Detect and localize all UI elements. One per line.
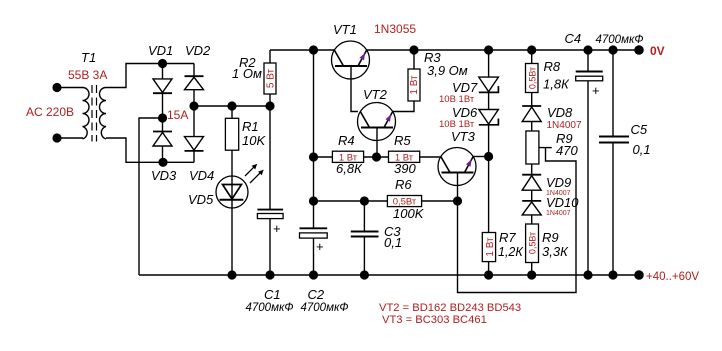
wire: C4 to bottom rail (587, 81, 589, 275)
node: R7 bottom (484, 270, 493, 279)
wire: R9a to VD9 (531, 164, 533, 175)
wire: 15A node to +rail (139, 118, 163, 275)
transformer T1 primary winding (83, 88, 90, 140)
resistor R3 (408, 69, 420, 101)
svg-text:+: + (273, 221, 281, 236)
wire: mid-right node to VD4 (193, 106, 195, 137)
svg-text:+: + (592, 83, 600, 98)
wire: VT3 emitter to zener node (473, 156, 488, 158)
transformer T1 secondary winding (100, 88, 106, 140)
wire: VT2 base (376, 128, 378, 158)
capacitor C3 plate1 (351, 231, 379, 233)
svg-text:15А: 15А (167, 108, 188, 122)
wire: R3 bottom to VT2 emitter (393, 101, 414, 112)
diode VD8 (522, 105, 541, 107)
svg-text:0,5Вт: 0,5Вт (528, 67, 538, 89)
node: C4 bottom (583, 270, 592, 279)
svg-text:C5: C5 (631, 122, 648, 137)
svg-text:4700мкФ: 4700мкФ (596, 34, 644, 46)
svg-text:1N4007: 1N4007 (546, 210, 571, 217)
capacitor C4 plate+ (576, 71, 603, 73)
node: VT3 emitter node (484, 152, 493, 161)
LED arrow 2 (250, 172, 262, 184)
resistor R5 (389, 151, 420, 162)
LED VD5 circle (216, 176, 248, 208)
wire: VD3 to bridge bottom (162, 147, 164, 163)
transistor VT3 (438, 148, 476, 186)
capacitor C2 plate- (300, 233, 328, 238)
node: LED bottom (227, 270, 236, 279)
svg-text:390: 390 (394, 161, 416, 176)
diode VD2 (185, 75, 204, 77)
diode VD10 (522, 200, 541, 202)
resistor R8 (526, 64, 539, 93)
transformer T1 core (91, 85, 93, 142)
wire: C5 top stub (612, 50, 614, 136)
svg-text:0,5Вт: 0,5Вт (528, 232, 538, 254)
diode VD1 (153, 79, 172, 93)
wire: C1 column (269, 106, 271, 209)
svg-text:10В 1Вт: 10В 1Вт (439, 119, 475, 130)
transistor VT2 (358, 103, 396, 141)
LED VD5 cathode bar (220, 199, 244, 201)
svg-text:VD4: VD4 (189, 168, 214, 183)
wire: R2 to rail y106 (269, 94, 271, 106)
terminal: AC bottom (52, 133, 61, 142)
node: 15A junction (158, 113, 167, 122)
svg-text:100K: 100K (393, 206, 425, 221)
wire: top rail VT1 to 0V (367, 49, 639, 51)
svg-text:T1: T1 (81, 50, 96, 65)
svg-text:0,1: 0,1 (384, 235, 402, 250)
diode VD9 (522, 174, 541, 176)
svg-text:VT3 = BC303 BC461: VT3 = BC303 BC461 (382, 314, 487, 326)
node: R9b bottom (527, 270, 536, 279)
svg-text:1 Вт: 1 Вт (409, 75, 420, 95)
capacitor C5 plate1 (599, 136, 629, 138)
svg-text:VD10: VD10 (546, 195, 579, 210)
zener diode VD7 (479, 77, 499, 92)
svg-text:470: 470 (556, 143, 578, 158)
wire: VD7-VD6 (488, 93, 490, 110)
node: C4 top (583, 45, 592, 54)
wire: R9b to bottom rail (531, 263, 533, 276)
wire: VD9-VD10 (531, 190, 533, 201)
node: C5 top (608, 45, 617, 54)
node: R3 top (409, 45, 418, 54)
svg-text:55В 3А: 55В 3А (68, 68, 107, 82)
wire: VT3 base (457, 173, 459, 202)
wire: x313 column (313, 50, 315, 228)
capacitor C3 plate2 (351, 236, 379, 238)
resistor R6 (387, 196, 421, 207)
svg-text:3,3К: 3,3К (542, 244, 569, 259)
svg-text:1 Ом: 1 Ом (232, 66, 262, 81)
capacitor C2 plate+ (300, 227, 328, 229)
resistor R1 (225, 118, 238, 150)
svg-text:R8: R8 (544, 59, 561, 74)
svg-text:0,1: 0,1 (633, 142, 651, 157)
wire: C3 top stub (363, 201, 365, 231)
svg-text:+40..+60V: +40..+60V (646, 271, 699, 283)
svg-text:6,8К: 6,8К (336, 161, 363, 176)
wire: C3 to bottom rail (363, 237, 365, 276)
LED VD5 triangle (223, 185, 242, 200)
wire: R9 tap stub (546, 147, 552, 149)
node: bridge bottom (158, 158, 167, 167)
wire: AC input top lead (57, 87, 83, 89)
wire: 0V sense rail y106 (194, 105, 270, 107)
terminal +40..+60V (634, 270, 644, 280)
transistor VT1 (332, 41, 370, 79)
wire: row157 seg2 (364, 156, 389, 158)
capacitor C1 plate- (257, 214, 283, 219)
capacitor C4 plate- (576, 76, 603, 81)
wire: R8 top stub (531, 50, 533, 64)
wire: row201 seg2 (422, 200, 458, 202)
wire: R1 top stub (231, 106, 233, 118)
wire: VT1 base down to VT2 collector (351, 66, 358, 112)
wire: row157 seg1 (314, 156, 333, 158)
node: C3 bottom (360, 270, 369, 279)
svg-text:1,8К: 1,8К (543, 77, 570, 92)
wire: feedback VT3 base down-around (458, 148, 577, 293)
svg-text:R4: R4 (338, 133, 355, 148)
wire: VD2 top stub (193, 64, 195, 77)
capacitor C1 plate+ (257, 209, 283, 211)
wire: C4 top stub (587, 50, 589, 71)
svg-text:C2: C2 (308, 287, 325, 302)
svg-text:R5: R5 (394, 133, 411, 148)
wire: secondary top to bridge (106, 64, 194, 88)
svg-text:+: + (316, 239, 324, 254)
svg-text:R6: R6 (395, 177, 412, 192)
wire: AC input bottom lead (57, 137, 83, 139)
svg-text:5 Вт: 5 Вт (266, 68, 277, 88)
svg-text:VD2: VD2 (185, 43, 211, 58)
resistor R9 470 (526, 131, 539, 164)
node: C5 bottom (608, 270, 617, 279)
svg-text:1N3055: 1N3055 (374, 22, 416, 36)
node: C2 bottom (309, 270, 318, 279)
svg-text:1,2К: 1,2К (498, 245, 523, 259)
wire: R3 top stub (413, 50, 415, 69)
node: R1 top (227, 101, 236, 110)
node: R2 bottom / C1 top (265, 101, 274, 110)
wire: R8 to VD8 (531, 93, 533, 107)
node: C1 bottom (265, 270, 274, 279)
wire: R2 top stub (269, 50, 271, 63)
svg-text:R7: R7 (499, 230, 516, 245)
svg-text:VT2 = BD162 BD243 BD543: VT2 = BD162 BD243 BD543 (379, 302, 521, 314)
wire: secondary bottom to bridge (106, 138, 194, 162)
wire: C1 to bottom rail (269, 219, 271, 275)
node: bridge mid-right (189, 101, 198, 110)
node: R6 row left (309, 196, 318, 205)
wire: VD1 top stub (162, 64, 164, 79)
svg-text:10K: 10K (242, 133, 266, 148)
LED arrow 1 (245, 166, 256, 177)
svg-text:VT1: VT1 (333, 22, 357, 37)
svg-text:R1: R1 (242, 119, 259, 134)
svg-text:VD7: VD7 (452, 80, 478, 95)
wire: VD4 to bridge bottom (193, 151, 195, 162)
svg-text:VD9: VD9 (546, 175, 571, 190)
diode VD4 (185, 137, 204, 151)
svg-text:VD1: VD1 (148, 43, 173, 58)
node: bridge top (158, 59, 167, 68)
node: VT2 base / R4-R5 (372, 152, 381, 161)
zener diode VD6 (479, 110, 499, 125)
node: C3 top (360, 196, 369, 205)
capacitor C5 plate2 (599, 142, 629, 144)
svg-text:VD3: VD3 (151, 168, 177, 183)
svg-text:4700мкФ: 4700мкФ (246, 302, 294, 314)
wire: R7 to bottom rail (488, 262, 490, 275)
svg-text:1 Вт: 1 Вт (485, 237, 496, 257)
wire: zener top stub (488, 50, 490, 77)
wire: VD8 to R9a (531, 122, 533, 132)
node: VT3 base node (453, 196, 462, 205)
svg-text:VT2: VT2 (363, 87, 388, 102)
wire: top rail left of VT1 (270, 49, 334, 51)
svg-text:1N4007: 1N4007 (547, 120, 582, 131)
node: zener column top (484, 45, 493, 54)
resistor R2 (264, 63, 276, 94)
diode VD3 (153, 131, 172, 133)
svg-text:VD5: VD5 (188, 192, 214, 207)
wire: VD1 to 15A node to VD3 (162, 93, 164, 131)
wire: row157 seg3 to VT3 (420, 156, 441, 158)
svg-text:C1: C1 (264, 287, 281, 302)
node: VT1 collector tap (309, 45, 318, 54)
wire: R1 to LED to bottom rail (231, 150, 233, 275)
svg-text:R9: R9 (542, 230, 559, 245)
svg-text:3,9 Ом: 3,9 Ом (427, 63, 468, 78)
svg-text:VD6: VD6 (452, 105, 478, 120)
svg-text:VD8: VD8 (547, 105, 573, 120)
node: R8 top (527, 45, 536, 54)
resistor R4 (332, 151, 363, 162)
wire: zener node to R7 (488, 125, 490, 233)
svg-text:10В 1Вт: 10В 1Вт (439, 94, 475, 105)
resistor R7 (482, 233, 495, 262)
wire: row201 seg1 (314, 200, 388, 202)
node: R4 left (309, 152, 318, 161)
terminal: AC top (52, 83, 61, 92)
svg-text:AC 220В: AC 220В (26, 105, 74, 119)
wire: bottom +V rail (139, 274, 639, 276)
svg-text:0V: 0V (650, 44, 665, 58)
terminal 0V (634, 45, 644, 55)
wire: VD2 to mid-right node (193, 90, 195, 106)
wire: C5 to bottom rail (612, 143, 614, 276)
resistor R9 3.3K (526, 224, 539, 263)
svg-text:4700мкФ: 4700мкФ (301, 302, 349, 314)
svg-text:VT3: VT3 (451, 129, 476, 144)
svg-text:C4: C4 (565, 31, 582, 46)
wire: C2 to bottom rail (313, 238, 315, 275)
wire: VD10 to R9b (531, 215, 533, 224)
